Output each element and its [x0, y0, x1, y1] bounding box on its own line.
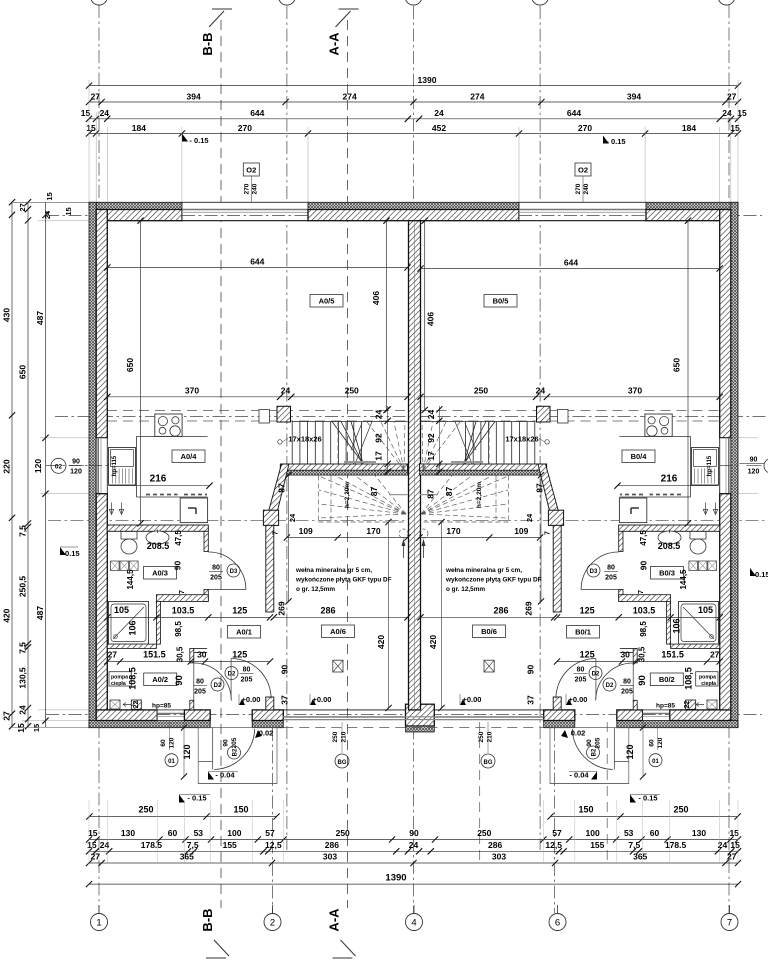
porch left: [198, 728, 277, 784]
svg-text:87: 87: [369, 487, 379, 497]
washbasin left: [146, 531, 169, 544]
dim row 27/151.5/30.5/30/125 left: [107, 661, 270, 663]
svg-text:24: 24: [426, 410, 436, 420]
svg-text:286: 286: [493, 605, 508, 615]
svg-text:87: 87: [444, 487, 454, 497]
svg-text:+0.00: +0.00: [569, 695, 588, 704]
svg-text:17: 17: [374, 451, 384, 461]
svg-text:178.5: 178.5: [665, 840, 687, 850]
bottom wall insulation left: [89, 721, 210, 728]
utility wall left: [190, 648, 194, 663]
svg-text:60: 60: [650, 828, 660, 838]
dim 406 right: [424, 221, 426, 410]
left dim col A x=12: [11, 202, 13, 727]
svg-text:125: 125: [580, 650, 595, 660]
svg-text:216: 216: [150, 474, 167, 485]
svg-text:286: 286: [320, 605, 335, 615]
svg-text:24: 24: [525, 513, 534, 522]
bath label B0/3: [651, 567, 684, 580]
svg-text:205: 205: [210, 575, 222, 582]
svg-text:A0/4: A0/4: [181, 452, 198, 461]
horizontal axis y=520.3: [48, 519, 768, 521]
svg-text:27: 27: [727, 92, 737, 102]
top wall insulation band: [89, 202, 182, 209]
bath mid wall right: [619, 595, 671, 602]
svg-text:hp=85: hp=85: [152, 703, 171, 710]
dim row 103.5/125 left: [107, 616, 270, 618]
dim 650 right: [687, 221, 689, 524]
svg-text:01: 01: [168, 759, 175, 765]
svg-text:150: 150: [233, 805, 248, 815]
svg-text:178.5: 178.5: [141, 840, 163, 850]
svg-text:155: 155: [223, 840, 237, 850]
svg-text:24: 24: [100, 108, 110, 118]
svg-text:170: 170: [366, 526, 380, 536]
svg-text:hp=115: hp=115: [707, 455, 713, 476]
stair wall right: [420, 464, 547, 470]
svg-text:pompa: pompa: [111, 675, 128, 681]
svg-text:250: 250: [478, 731, 485, 742]
svg-text:150: 150: [578, 805, 593, 815]
window tag O2 top right: [575, 163, 591, 176]
svg-text:15: 15: [729, 828, 739, 838]
svg-text:7: 7: [179, 590, 186, 594]
washbasin right: [658, 531, 681, 544]
svg-text:106: 106: [128, 620, 138, 635]
svg-text:15: 15: [87, 840, 97, 850]
dim 170/109 right: [420, 537, 541, 539]
svg-text:420: 420: [428, 635, 438, 649]
svg-text:120: 120: [70, 469, 82, 476]
kitchen label B0/4: [622, 450, 655, 463]
kitchen tall unit left: [180, 498, 207, 523]
svg-text:205: 205: [241, 677, 253, 684]
utility door D2 right: [596, 663, 634, 701]
svg-text:80: 80: [196, 679, 204, 686]
svg-text:B0/5: B0/5: [493, 297, 509, 306]
entrance door right: [572, 729, 613, 770]
section line B-B vertical dashed: [220, 20, 222, 908]
svg-text:208.5: 208.5: [658, 541, 681, 551]
window axis line right x=540: [539, 6, 541, 850]
left wall masonry upper: [96, 210, 107, 438]
svg-text:24: 24: [722, 108, 732, 118]
svg-text:205: 205: [605, 575, 617, 582]
dim 650 left: [140, 221, 142, 524]
kitchen tall unit right: [619, 498, 646, 523]
svg-text:125: 125: [232, 650, 247, 660]
svg-text:210: 210: [341, 731, 348, 742]
svg-text:108,5: 108,5: [684, 667, 694, 690]
WC right: [690, 532, 706, 540]
svg-text:365: 365: [633, 852, 647, 862]
svg-text:24: 24: [536, 386, 546, 396]
bottom wall entrance opening left / masonry pier: [252, 710, 283, 721]
bottom center pier at party wall: [406, 704, 435, 726]
svg-text:106: 106: [672, 618, 682, 633]
svg-text:90: 90: [409, 828, 419, 838]
svg-text:92: 92: [374, 433, 384, 443]
stair break line left: [355, 422, 372, 465]
svg-text:47,5: 47,5: [639, 530, 648, 546]
svg-text:210: 210: [487, 731, 494, 742]
svg-text:BG: BG: [338, 760, 347, 766]
svg-text:487: 487: [35, 606, 45, 620]
svg-text:D2: D2: [606, 683, 614, 689]
right wall masonry lower: [720, 494, 731, 721]
svg-text:7: 7: [545, 531, 552, 535]
bath top wall right: [619, 525, 720, 531]
svg-text:A-A: A-A: [327, 32, 342, 56]
svg-text:250: 250: [336, 828, 350, 838]
svg-text:6: 6: [555, 918, 560, 929]
svg-text:ciepła: ciepła: [701, 681, 716, 687]
svg-text:24: 24: [374, 410, 384, 420]
living room dim 644 left: [107, 267, 407, 269]
bottom wall masonry segments left unit: [96, 710, 157, 721]
svg-text:87: 87: [277, 483, 287, 493]
corridor label B0/1: [567, 626, 600, 639]
pompa ciepla labels: [109, 672, 131, 686]
column symbol room right: [484, 660, 494, 672]
svg-text:B-B: B-B: [200, 32, 215, 55]
bottom wall insulation right: [544, 721, 575, 728]
svg-text:4: 4: [411, 918, 416, 929]
dim row 125/30/151.5/27 right: [557, 661, 720, 663]
svg-text:250: 250: [345, 386, 359, 396]
svg-text:7,5: 7,5: [628, 840, 640, 850]
svg-text:01: 01: [652, 759, 659, 765]
svg-text:80: 80: [577, 667, 585, 674]
top wall masonry left segment: [96, 210, 182, 221]
svg-text:27: 27: [710, 650, 720, 660]
svg-text:15: 15: [88, 828, 98, 838]
svg-text:250: 250: [477, 828, 491, 838]
svg-text:394: 394: [627, 92, 641, 102]
svg-text:170: 170: [446, 526, 460, 536]
svg-text:151.5: 151.5: [143, 650, 166, 660]
svg-text:144,5: 144,5: [679, 569, 688, 590]
ventilation circle right: [419, 529, 428, 538]
svg-text:240: 240: [583, 183, 590, 194]
top witness lines: [88, 80, 90, 202]
svg-text:90: 90: [280, 665, 290, 675]
svg-text:90: 90: [639, 561, 649, 571]
svg-text:80: 80: [623, 679, 631, 686]
stair column left: [263, 510, 278, 525]
svg-text:216: 216: [661, 474, 678, 485]
svg-text:+0.00: +0.00: [463, 695, 482, 704]
utility door D2 left: [194, 663, 232, 701]
svg-text:80: 80: [243, 667, 251, 674]
svg-text:60: 60: [168, 828, 178, 838]
svg-text:406: 406: [371, 291, 381, 305]
svg-text:274: 274: [343, 92, 357, 102]
bath side wall left: [204, 531, 208, 551]
WC left: [121, 532, 137, 540]
svg-text:D2: D2: [228, 672, 236, 678]
svg-text:270: 270: [238, 123, 252, 133]
terrace door tag BG left: [341, 722, 343, 753]
room A0/6 dims 286: [274, 616, 408, 618]
bottom dim row 150/250 right: [551, 816, 738, 818]
top wall masonry middle segment: [308, 210, 519, 221]
svg-text:184: 184: [682, 123, 696, 133]
svg-text:269: 269: [524, 601, 534, 615]
svg-text:7: 7: [273, 531, 280, 535]
room door D2 left: [231, 659, 271, 699]
svg-text:420: 420: [376, 635, 386, 649]
bath label A0/3: [144, 567, 177, 580]
bottom terrace window band left: [283, 709, 405, 711]
svg-text:57: 57: [552, 828, 562, 838]
svg-text:103.5: 103.5: [633, 606, 656, 616]
svg-text:430: 430: [2, 308, 12, 322]
svg-text:130,5: 130,5: [18, 667, 28, 689]
dim 109/170 left: [287, 537, 408, 539]
right wall insulation: [731, 202, 738, 727]
svg-text:120: 120: [657, 737, 664, 748]
svg-text:o gr. 12,5mm: o gr. 12,5mm: [446, 586, 485, 593]
svg-text:BG: BG: [484, 760, 493, 766]
svg-text:100: 100: [586, 828, 600, 838]
svg-text:7,5: 7,5: [18, 525, 28, 537]
terrace door tag BG right: [487, 722, 489, 753]
party wall: [409, 221, 421, 710]
axis segments over windows: [182, 215, 308, 217]
washer squares right: [708, 561, 717, 571]
ventilation circle left: [399, 529, 408, 538]
left wall window: [96, 438, 107, 494]
svg-text:15: 15: [86, 123, 96, 133]
left witness lines: [38, 220, 92, 222]
svg-text:7,5: 7,5: [187, 840, 199, 850]
svg-text:D3: D3: [230, 569, 238, 575]
utility wall right: [633, 648, 637, 663]
svg-text:105: 105: [698, 605, 713, 615]
corridor-room wall right: [553, 525, 561, 612]
svg-text:A0/5: A0/5: [319, 297, 335, 306]
svg-text:270: 270: [578, 123, 592, 133]
svg-text:125: 125: [580, 606, 595, 616]
stair treads right: [534, 422, 536, 465]
svg-text:303: 303: [323, 852, 337, 862]
svg-text:- 0.15: - 0.15: [638, 794, 657, 803]
svg-text:205: 205: [194, 689, 206, 696]
stair winder dashed fan right: [464, 422, 495, 464]
kitchen sink unit left: [109, 448, 136, 486]
utility label B0/2: [650, 673, 683, 686]
svg-text:240: 240: [252, 183, 259, 194]
svg-text:02: 02: [55, 464, 63, 471]
svg-text:60: 60: [160, 739, 167, 747]
svg-text:130: 130: [692, 828, 706, 838]
svg-text:47,5: 47,5: [174, 530, 183, 546]
svg-text:+0.00: +0.00: [313, 695, 332, 704]
bath door D3 right: [581, 552, 619, 590]
svg-text:A-A: A-A: [327, 908, 342, 932]
svg-text:30,5: 30,5: [176, 646, 185, 662]
section line A-A vertical dashed: [347, 20, 349, 908]
svg-text:B0/3: B0/3: [659, 569, 675, 578]
svg-text:B2: B2: [592, 748, 598, 756]
niche rect right: [558, 410, 569, 424]
bath door D3 left: [208, 552, 246, 590]
svg-text:286: 286: [325, 840, 339, 850]
left window axis y=465.5: [46, 465, 112, 467]
svg-text:24: 24: [281, 386, 291, 396]
svg-text:h=2,20m: h=2,20m: [476, 482, 483, 508]
svg-text:57: 57: [265, 828, 275, 838]
svg-text:24: 24: [434, 108, 444, 118]
svg-text:286: 286: [488, 840, 502, 850]
left window tag 02: [51, 458, 66, 473]
bottom wall window right (hp=85): [643, 710, 670, 721]
stair labels 24/92/17 right: [438, 406, 440, 472]
svg-text:90: 90: [173, 561, 183, 571]
svg-text:wykończone płytą GKF typu DF: wykończone płytą GKF typu DF: [445, 577, 542, 584]
svg-text:24: 24: [18, 705, 28, 715]
svg-text:A0/2: A0/2: [152, 675, 168, 684]
svg-text:100: 100: [227, 828, 241, 838]
svg-text:394: 394: [187, 92, 201, 102]
right witness lines: [735, 437, 758, 439]
window tag O2 top left: [243, 163, 259, 176]
svg-text:125: 125: [232, 606, 247, 616]
svg-text:98,5: 98,5: [174, 621, 183, 637]
svg-text:644: 644: [250, 108, 264, 118]
svg-text:30: 30: [197, 650, 207, 660]
svg-text:103.5: 103.5: [172, 606, 195, 616]
utility label A0/2: [144, 673, 177, 686]
svg-text:37: 37: [280, 695, 290, 705]
svg-text:24: 24: [409, 840, 419, 850]
svg-text:22: 22: [684, 701, 691, 709]
svg-text:22: 22: [133, 701, 140, 709]
terrace slab lines bottom center: [283, 716, 543, 718]
svg-text:250: 250: [332, 731, 339, 742]
svg-text:151.5: 151.5: [661, 650, 684, 660]
grid line 1 (dash-dot vertical x=99): [98, 5, 100, 913]
bath top wall left: [107, 525, 208, 531]
svg-text:1390: 1390: [385, 873, 406, 884]
niche rect left: [259, 410, 270, 424]
svg-text:17x18x26: 17x18x26: [505, 435, 538, 444]
bottom terrace window band right: [434, 709, 543, 711]
svg-text:B0/1: B0/1: [575, 628, 591, 637]
left wall masonry lower: [96, 494, 107, 721]
kitchen cooktop left: [155, 414, 182, 436]
bottom wall masonry segments right unit: [544, 710, 575, 721]
svg-text:109: 109: [514, 526, 528, 536]
right window tag 02: [764, 458, 768, 473]
svg-text:B-B: B-B: [200, 908, 215, 931]
svg-text:15: 15: [737, 108, 747, 118]
svg-text:487: 487: [35, 311, 45, 325]
svg-text:15: 15: [64, 207, 73, 215]
svg-text:303: 303: [492, 852, 506, 862]
svg-text:hp=85: hp=85: [656, 703, 675, 710]
top reference circles: [91, 0, 108, 5]
svg-text:370: 370: [185, 386, 199, 396]
svg-text:1390: 1390: [418, 75, 437, 85]
living room dim 644 right: [421, 268, 720, 270]
svg-text:208.5: 208.5: [147, 541, 170, 551]
landing slab gray edges: [344, 461, 376, 463]
grid line 7 (dash-dot vertical x=729): [728, 5, 730, 913]
svg-text:- 0.15: - 0.15: [189, 136, 208, 145]
svg-text:15: 15: [730, 123, 740, 133]
svg-text:15: 15: [730, 840, 740, 850]
svg-text:452: 452: [432, 123, 446, 133]
kitchen counter left: [137, 435, 208, 437]
svg-text:144,5: 144,5: [126, 569, 135, 590]
kitchen cooktop right: [645, 414, 672, 436]
svg-text:hp=115: hp=115: [112, 455, 118, 476]
svg-text:24: 24: [288, 513, 297, 522]
svg-text:105: 105: [114, 605, 129, 615]
top dimension row 15/184/270/452: [89, 133, 738, 135]
heat pump unit left: [110, 700, 120, 709]
left dim col B x=28: [27, 202, 29, 727]
top dimension row 27/394/274: [89, 101, 738, 103]
horizontal axis y=416.5: [55, 416, 768, 418]
svg-text:650: 650: [125, 358, 135, 372]
grid line 6 vertical below building: [554, 728, 556, 913]
angled stair wall left: [267, 464, 289, 523]
svg-text:108,5: 108,5: [128, 667, 138, 690]
svg-text:250: 250: [138, 805, 153, 815]
svg-text:- 0.15: - 0.15: [606, 137, 625, 146]
svg-text:15: 15: [45, 192, 54, 200]
heat pump unit right: [707, 700, 717, 709]
kitchen vent arrows left: [111, 503, 113, 514]
svg-text:A0/6: A0/6: [330, 627, 346, 636]
svg-text:269: 269: [277, 601, 287, 615]
svg-text:90: 90: [526, 665, 536, 675]
horizontal axis bottom wall y=714.5: [46, 714, 762, 716]
svg-text:644: 644: [567, 108, 581, 118]
svg-text:B0/2: B0/2: [659, 675, 675, 684]
window tag 01 left: [165, 754, 178, 767]
svg-text:D3: D3: [590, 569, 598, 575]
svg-text:27: 27: [91, 852, 101, 862]
svg-text:80: 80: [607, 565, 615, 572]
svg-text:27: 27: [727, 852, 737, 862]
svg-text:120: 120: [33, 459, 43, 473]
svg-text:27: 27: [91, 92, 101, 102]
svg-text:406: 406: [426, 312, 436, 326]
svg-text:17x18x26: 17x18x26: [288, 435, 321, 444]
entrance door left: [214, 729, 255, 770]
room A0/6 labels: [322, 625, 355, 638]
shower right: [679, 602, 719, 645]
kitchen column left: [277, 406, 291, 422]
bottom dim row 250/150 left: [89, 816, 276, 818]
svg-text:370: 370: [628, 386, 642, 396]
svg-text:A0/3: A0/3: [152, 569, 168, 578]
svg-text:ciepła: ciepła: [111, 681, 126, 687]
svg-text:24: 24: [43, 210, 52, 219]
grid line 2 vertical below building: [272, 728, 274, 913]
mirror section extension lines below building: [479, 722, 481, 866]
svg-text:205: 205: [575, 677, 587, 684]
svg-text:120: 120: [748, 469, 760, 476]
svg-text:27: 27: [2, 711, 12, 721]
svg-text:90: 90: [637, 675, 648, 686]
svg-text:wykończone płytą GKF typu DF: wykończone płytą GKF typu DF: [295, 577, 392, 584]
right wall window: [720, 438, 731, 494]
